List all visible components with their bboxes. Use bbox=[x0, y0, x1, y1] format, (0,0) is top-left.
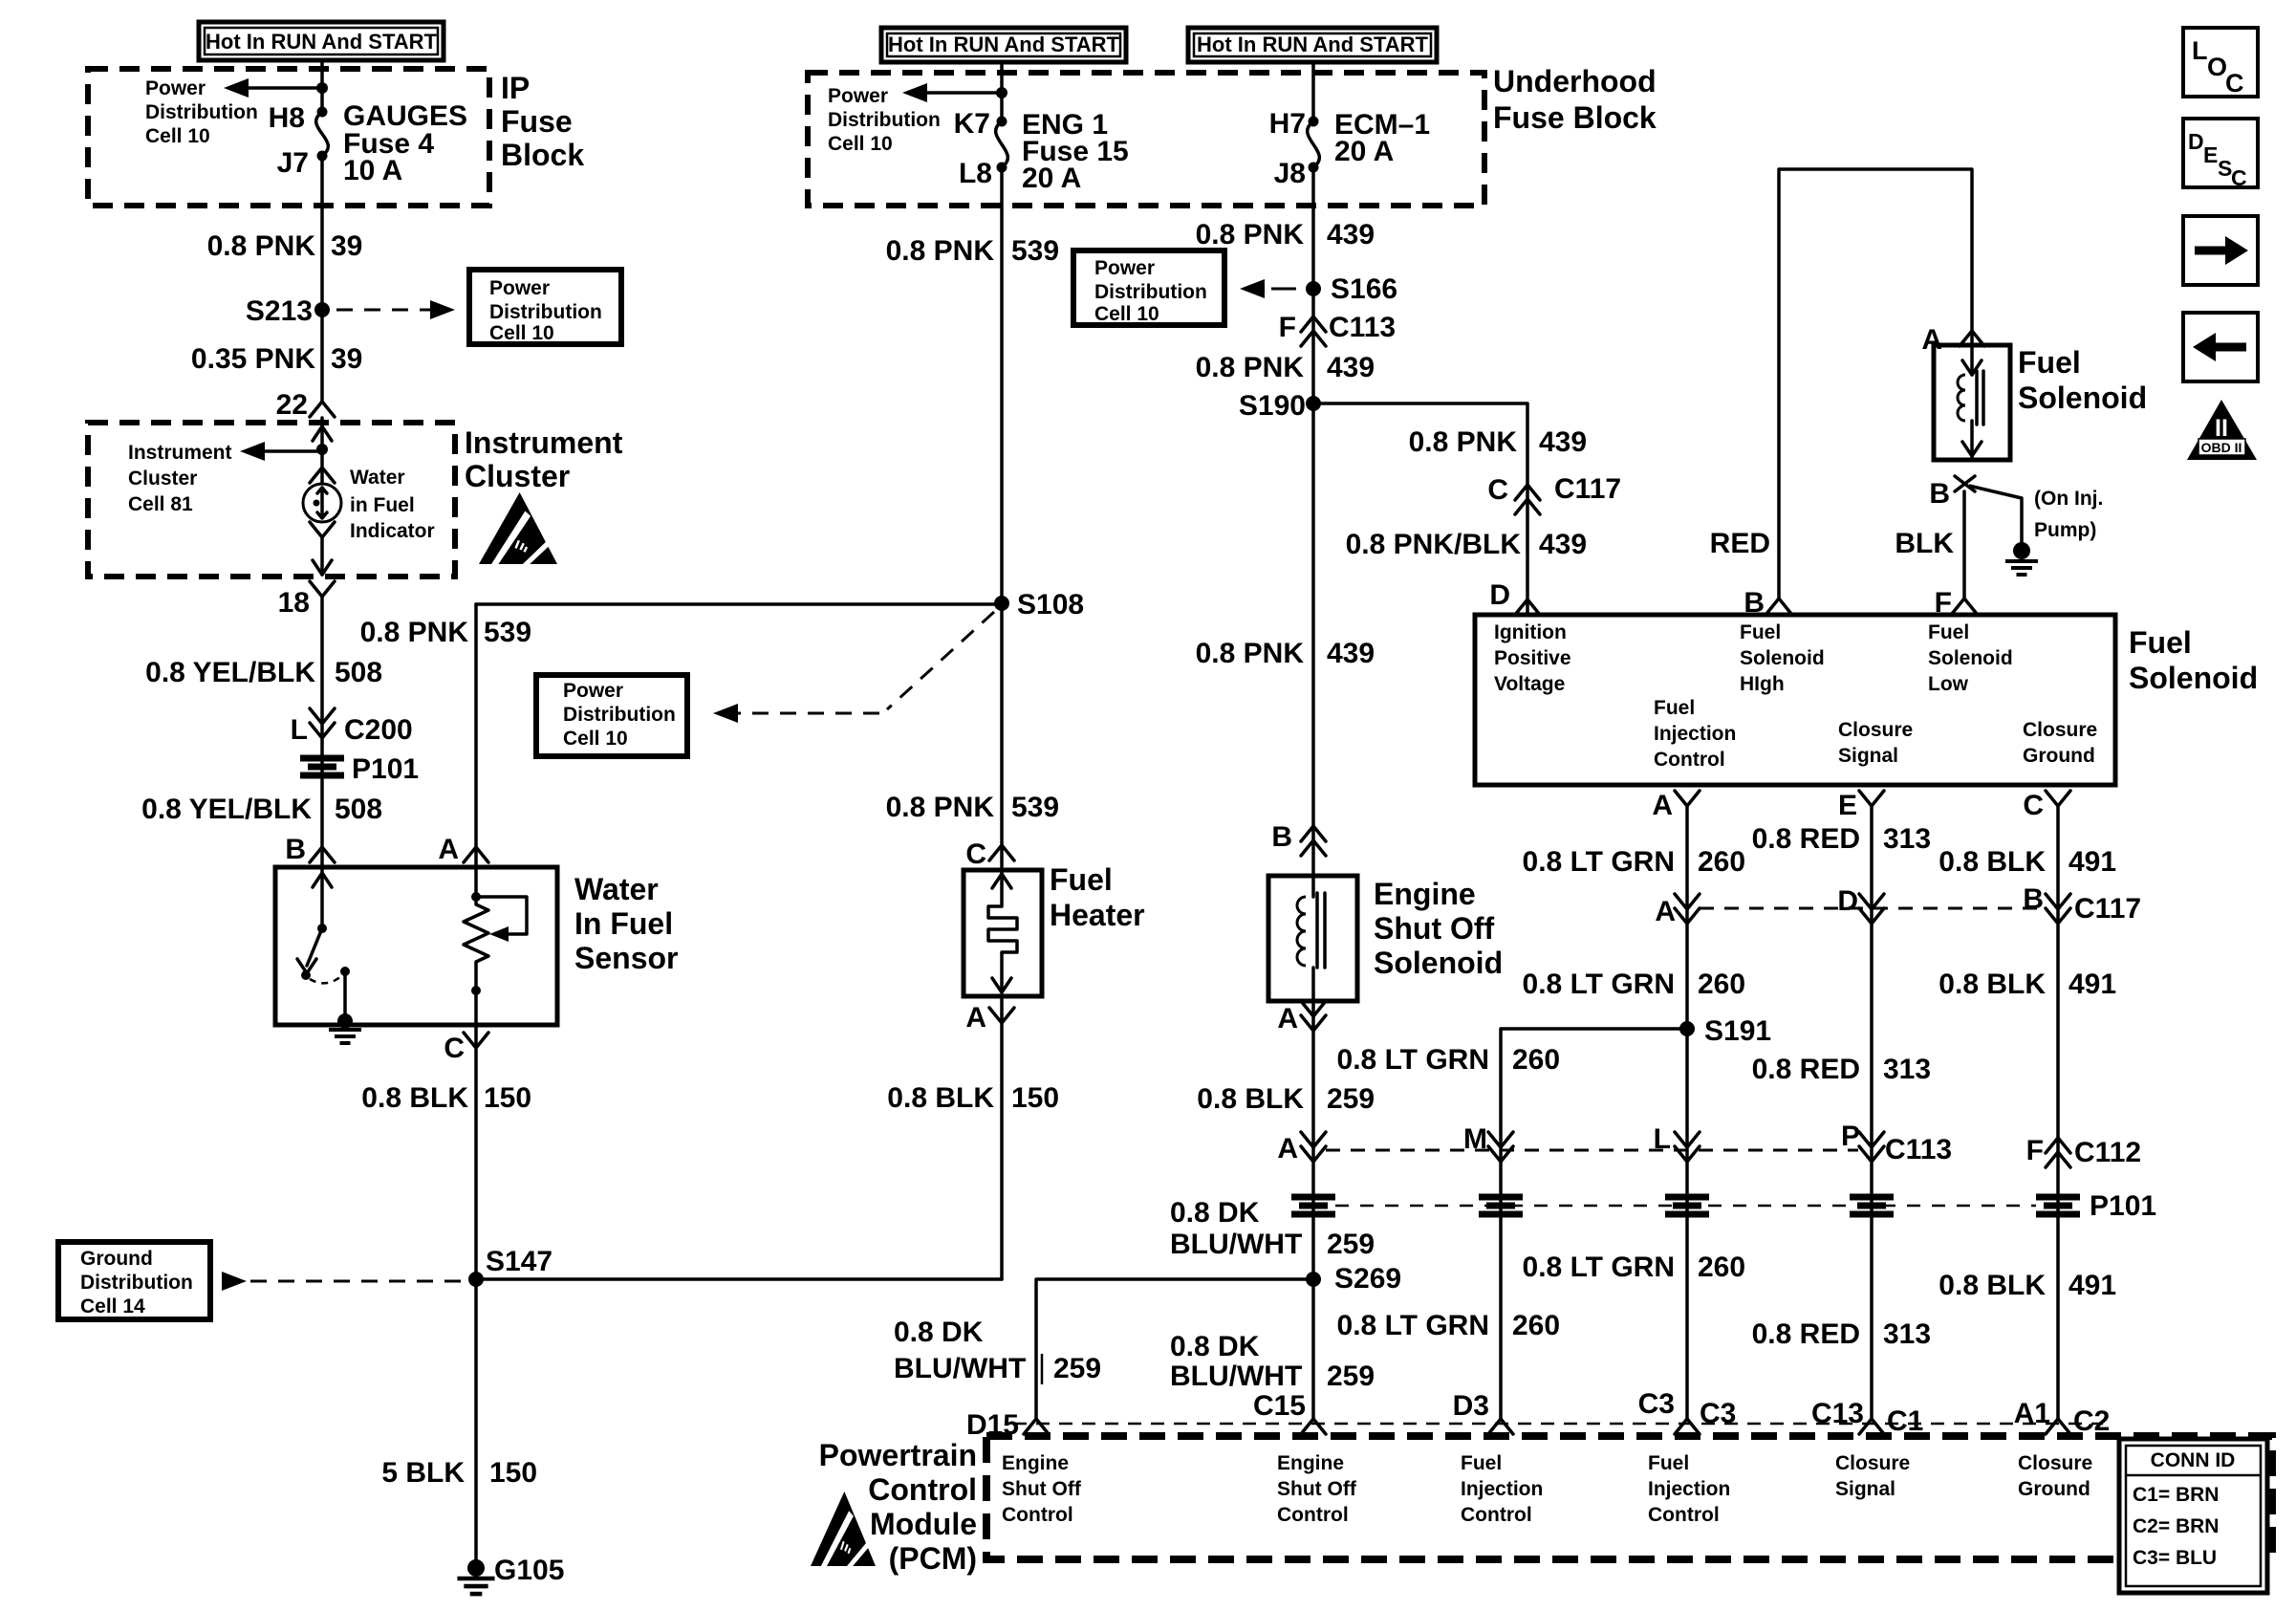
pass-through grommet P101 (column 1) bbox=[300, 755, 344, 762]
svg-text:S108: S108 bbox=[1017, 589, 1084, 620]
wire: solenoid A to S269 bbox=[1311, 1001, 1315, 1419]
svg-text:C1= BRN: C1= BRN bbox=[2133, 1484, 2219, 1506]
svg-text:Solenoid: Solenoid bbox=[2018, 381, 2147, 415]
pin "A" of engine shut off solenoid bbox=[1301, 1015, 1326, 1031]
sensor sender resistor (inside) bbox=[474, 867, 478, 897]
svg-text:Module: Module bbox=[870, 1507, 977, 1541]
svg-text:Distribution: Distribution bbox=[145, 101, 258, 123]
svg-text:Distribution: Distribution bbox=[828, 109, 941, 131]
svg-text:Signal: Signal bbox=[1838, 745, 1898, 767]
reference box "Power Distribution Cell 10" (middle) bbox=[536, 675, 687, 756]
svg-text:0.35 PNK: 0.35 PNK bbox=[191, 343, 315, 375]
svg-text:260: 260 bbox=[1698, 1252, 1745, 1283]
svg-text:313: 313 bbox=[1883, 1318, 1931, 1350]
svg-text:Positive: Positive bbox=[1494, 647, 1571, 669]
wire: indicator to cluster box edge with down arrow bbox=[320, 537, 324, 575]
svg-text:Water: Water bbox=[574, 872, 659, 906]
ESD symbol (instrument cluster) bbox=[479, 492, 557, 566]
svg-text:Hot In RUN And START: Hot In RUN And START bbox=[888, 33, 1120, 56]
svg-text:0.8 BLK: 0.8 BLK bbox=[1939, 846, 2046, 878]
chevron above water-in-fuel indicator bbox=[320, 449, 324, 484]
svg-text:J8: J8 bbox=[1274, 158, 1306, 189]
svg-text:Closure: Closure bbox=[1838, 719, 1913, 741]
svg-text:0.8 BLK: 0.8 BLK bbox=[1197, 1083, 1304, 1115]
svg-text:P: P bbox=[1841, 1121, 1860, 1152]
svg-text:508: 508 bbox=[335, 794, 382, 825]
svg-text:A: A bbox=[1277, 1003, 1298, 1034]
svg-text:Cell 10: Cell 10 bbox=[828, 133, 893, 155]
svg-text:Control: Control bbox=[1648, 1504, 1720, 1526]
svg-text:Engine: Engine bbox=[1374, 877, 1476, 911]
svg-text:0.8 PNK: 0.8 PNK bbox=[1196, 638, 1305, 669]
svg-text:Hot In RUN And START: Hot In RUN And START bbox=[206, 30, 438, 54]
CONN ID legend box bbox=[2119, 1439, 2267, 1593]
chevron below indicator bbox=[310, 522, 335, 537]
pin "22" connector chevron bbox=[310, 402, 335, 417]
pin "B" of engine shut off solenoid bbox=[1301, 826, 1326, 841]
ESD symbol (PCM) bbox=[811, 1491, 876, 1568]
svg-text:0.8 DK: 0.8 DK bbox=[1170, 1331, 1260, 1362]
svg-text:10 A: 10 A bbox=[343, 155, 402, 186]
svg-text:IP: IP bbox=[501, 71, 530, 105]
svg-text:E: E bbox=[2203, 142, 2218, 167]
wire: header to fuse H8 bbox=[320, 60, 324, 112]
svg-text:C: C bbox=[965, 838, 986, 870]
IP Fuse Block dashed box bbox=[88, 69, 489, 206]
svg-text:0.8 YEL/BLK: 0.8 YEL/BLK bbox=[145, 657, 315, 688]
svg-text:A: A bbox=[965, 1002, 986, 1034]
ground G105 bbox=[467, 1559, 485, 1577]
arrow to Instrument Cluster Cell 81 bbox=[262, 449, 322, 453]
svg-text:C3= BLU: C3= BLU bbox=[2133, 1547, 2217, 1569]
svg-text:20 A: 20 A bbox=[1022, 163, 1081, 194]
svg-text:Power: Power bbox=[563, 680, 623, 702]
svg-text:Distribution: Distribution bbox=[1094, 281, 1207, 303]
svg-text:Underhood: Underhood bbox=[1493, 64, 1657, 98]
PCM pin "D15" bbox=[1024, 1419, 1049, 1434]
svg-text:0.8 LT GRN: 0.8 LT GRN bbox=[1337, 1310, 1489, 1341]
svg-text:Signal: Signal bbox=[1835, 1478, 1895, 1500]
svg-text:0.8 PNK: 0.8 PNK bbox=[886, 235, 995, 267]
svg-text:C: C bbox=[2231, 165, 2247, 190]
svg-text:Cell 10: Cell 10 bbox=[489, 322, 554, 344]
svg-text:A: A bbox=[1655, 896, 1676, 927]
pin "A" of fuel heater bbox=[989, 1008, 1014, 1023]
splice S213 bbox=[314, 302, 330, 317]
svg-text:B: B bbox=[1929, 478, 1950, 510]
Underhood Fuse Block dashed box bbox=[808, 73, 1484, 206]
svg-text:C113: C113 bbox=[1885, 1134, 1952, 1165]
Engine Shut Off Solenoid box bbox=[1268, 876, 1357, 1001]
svg-text:Control: Control bbox=[1277, 1504, 1349, 1526]
Ground Distribution Cell 14 reference box bbox=[58, 1242, 210, 1319]
PCM pin "C3" bbox=[1675, 1419, 1700, 1434]
svg-text:150: 150 bbox=[489, 1457, 537, 1489]
P101 dashed connector line bbox=[1335, 1205, 2036, 1208]
svg-text:Solenoid: Solenoid bbox=[2129, 661, 2258, 695]
wire: S108 branch corner to sensor A bbox=[474, 604, 478, 867]
svg-text:Cell 10: Cell 10 bbox=[563, 728, 628, 750]
injector pump ground bbox=[2013, 542, 2030, 559]
pin "B" of water in fuel sensor bbox=[310, 847, 335, 862]
arrow S166 to ref box bbox=[1240, 279, 1265, 298]
svg-text:Power: Power bbox=[489, 277, 550, 299]
solenoid coil symbol bbox=[1297, 897, 1306, 966]
svg-text:20 A: 20 A bbox=[1334, 136, 1394, 167]
reference box "Power Distribution Cell 10" (right of S213) bbox=[469, 270, 621, 344]
fuse GAUGES Fuse 4 (H8/J7) bbox=[317, 107, 328, 118]
svg-text:II: II bbox=[2215, 415, 2228, 442]
header box "Hot In RUN And START" (IP) bbox=[199, 22, 444, 60]
svg-text:Hot In RUN And START: Hot In RUN And START bbox=[1197, 33, 1429, 56]
svg-text:B: B bbox=[2023, 883, 2044, 915]
svg-text:Distribution: Distribution bbox=[80, 1272, 193, 1294]
svg-text:BLU/WHT: BLU/WHT bbox=[1170, 1361, 1302, 1392]
wire: solenoid A to C3 (L column) bbox=[1685, 806, 1689, 1419]
pass-through grommet P101 (A column) bbox=[1291, 1194, 1335, 1201]
svg-text:260: 260 bbox=[1698, 969, 1745, 1000]
svg-text:0.8 RED: 0.8 RED bbox=[1752, 823, 1860, 855]
svg-text:HIgh: HIgh bbox=[1740, 673, 1785, 695]
splice S269 bbox=[1306, 1272, 1321, 1287]
svg-text:E: E bbox=[1838, 790, 1857, 821]
pass-through grommet P101 (F column) bbox=[2036, 1194, 2080, 1201]
fuse ECM-1 (H7/J8) bbox=[1311, 62, 1315, 121]
svg-text:539: 539 bbox=[1011, 235, 1059, 267]
connector C113 pin "F" bbox=[1301, 316, 1326, 332]
svg-text:M: M bbox=[1463, 1123, 1487, 1155]
svg-text:J7: J7 bbox=[277, 147, 309, 179]
splice S147 bbox=[468, 1272, 484, 1287]
connector C113 pin "L" bbox=[1675, 1146, 1700, 1162]
pin "D" of fuel solenoid box bbox=[1515, 599, 1540, 615]
svg-text:Cell 10: Cell 10 bbox=[1094, 303, 1159, 325]
svg-text:439: 439 bbox=[1539, 426, 1587, 458]
svg-text:259: 259 bbox=[1053, 1353, 1101, 1384]
svg-text:(On Inj.: (On Inj. bbox=[2034, 488, 2103, 510]
svg-text:0.8 PNK: 0.8 PNK bbox=[1409, 426, 1518, 458]
junction dot in IP fuse block bbox=[316, 82, 328, 94]
svg-text:D: D bbox=[1489, 579, 1510, 611]
wire: fuse J8 to engine shut off solenoid bbox=[1311, 167, 1315, 876]
arrow + dashed line to S147 bbox=[222, 1272, 247, 1291]
svg-text:BLU/WHT: BLU/WHT bbox=[894, 1353, 1026, 1384]
svg-text:F: F bbox=[1279, 312, 1296, 343]
svg-text:Injection: Injection bbox=[1461, 1478, 1543, 1500]
svg-text:Block: Block bbox=[501, 138, 584, 172]
pin "B" of fuel solenoid (component) with switch to inj pump ground bbox=[1955, 476, 1975, 491]
dashed pointer S108 to Power Distribution ref bbox=[887, 612, 994, 709]
pin "18" connector chevron bbox=[310, 581, 335, 597]
PCM pin "C15" bbox=[1301, 1419, 1326, 1434]
svg-text:Sensor: Sensor bbox=[574, 941, 678, 975]
svg-text:B: B bbox=[1271, 821, 1292, 853]
svg-text:D3: D3 bbox=[1453, 1390, 1489, 1422]
svg-text:150: 150 bbox=[484, 1082, 531, 1114]
svg-text:439: 439 bbox=[1539, 529, 1587, 560]
svg-text:S191: S191 bbox=[1704, 1015, 1771, 1047]
wire: fuel solenoid B loop (RED) bbox=[1779, 169, 1972, 599]
svg-text:313: 313 bbox=[1883, 823, 1931, 855]
PCM connector fine dashed line bbox=[1013, 1423, 2103, 1426]
svg-text:150: 150 bbox=[1011, 1082, 1059, 1114]
wire: fuse J7 to instrument cluster bbox=[320, 156, 324, 402]
svg-text:0.8 YEL/BLK: 0.8 YEL/BLK bbox=[141, 794, 312, 825]
svg-text:RED: RED bbox=[1710, 528, 1770, 559]
svg-text:491: 491 bbox=[2069, 969, 2116, 1000]
wire: solenoid E to PCM C1 (P column) bbox=[1870, 806, 1874, 1419]
svg-text:439: 439 bbox=[1327, 219, 1375, 250]
sensor switch (inside) bbox=[320, 867, 324, 926]
svg-text:CONN ID: CONN ID bbox=[2151, 1449, 2236, 1471]
svg-text:18: 18 bbox=[278, 587, 310, 619]
svg-text:Fuse: Fuse bbox=[501, 104, 573, 139]
svg-text:H7: H7 bbox=[1269, 108, 1306, 140]
connector C113 pin "P" bbox=[1859, 1146, 1884, 1162]
wire: fuse L8 to fuel heater bbox=[1000, 167, 1004, 870]
reference box "Power Distribution Cell 10" (col3) bbox=[1073, 250, 1224, 325]
svg-text:S269: S269 bbox=[1334, 1263, 1401, 1295]
svg-text:0.8 PNK/BLK: 0.8 PNK/BLK bbox=[1346, 529, 1522, 560]
svg-text:Fuel: Fuel bbox=[2018, 345, 2081, 380]
svg-text:C: C bbox=[2225, 69, 2244, 98]
PCM pin "D3" bbox=[1488, 1419, 1513, 1434]
next-page arrow box bbox=[2183, 216, 2258, 285]
arrow to Power Distribution Cell 10 (IP) bbox=[249, 86, 322, 90]
Powertrain Control Module (PCM) dashed box bbox=[986, 1436, 2272, 1559]
wire: heater A to S147 corner bbox=[1000, 996, 1004, 1279]
svg-text:491: 491 bbox=[2069, 1270, 2116, 1301]
connector C117 pin "A" (lower) bbox=[1675, 908, 1700, 924]
svg-text:260: 260 bbox=[1698, 846, 1745, 878]
svg-text:Solenoid: Solenoid bbox=[1374, 946, 1503, 980]
svg-text:0.8 LT GRN: 0.8 LT GRN bbox=[1523, 1252, 1675, 1283]
junction dot (instrument cluster) bbox=[316, 444, 328, 455]
pin "F" of fuel solenoid box bbox=[1952, 599, 1977, 614]
Fuel Heater box bbox=[964, 870, 1042, 996]
svg-text:Fuse Block: Fuse Block bbox=[1493, 100, 1657, 135]
connector C113 pin "A" (lower) bbox=[1301, 1146, 1326, 1162]
svg-text:Fuel: Fuel bbox=[1050, 862, 1113, 897]
svg-text:Injection: Injection bbox=[1648, 1478, 1730, 1500]
wire: S108 to sensor branch (horizontal) bbox=[476, 602, 1002, 606]
svg-text:A: A bbox=[438, 834, 459, 865]
svg-text:22: 22 bbox=[276, 389, 308, 421]
svg-text:259: 259 bbox=[1327, 1361, 1375, 1392]
svg-text:C117: C117 bbox=[2074, 893, 2141, 925]
svg-text:C: C bbox=[2023, 790, 2044, 821]
svg-text:Fuel: Fuel bbox=[2129, 625, 2192, 660]
svg-text:Fuel: Fuel bbox=[1654, 697, 1695, 719]
svg-text:539: 539 bbox=[1011, 792, 1059, 823]
svg-text:Power: Power bbox=[828, 85, 888, 107]
svg-text:Instrument: Instrument bbox=[465, 425, 623, 460]
svg-text:0.8 PNK: 0.8 PNK bbox=[207, 230, 316, 262]
svg-text:S190: S190 bbox=[1239, 390, 1306, 422]
PCM pin "A1/C2" bbox=[2046, 1419, 2070, 1434]
dashed arrow S213 to Power Distribution ref bbox=[336, 309, 432, 312]
branch wire S191 to M column bbox=[1501, 1029, 1687, 1419]
svg-text:0.8 BLK: 0.8 BLK bbox=[361, 1082, 468, 1114]
pass-through grommet P101 (M column) bbox=[1479, 1194, 1523, 1201]
svg-text:5 BLK: 5 BLK bbox=[381, 1457, 465, 1489]
svg-text:H8: H8 bbox=[269, 102, 305, 134]
svg-text:Control: Control bbox=[1654, 749, 1725, 771]
pin "B" of fuel solenoid box bbox=[1766, 599, 1791, 614]
arrow to Power Distribution Cell 10 (underhood) bbox=[927, 91, 1002, 95]
svg-text:Injection: Injection bbox=[1654, 723, 1736, 745]
svg-text:Low: Low bbox=[1928, 673, 1969, 695]
svg-text:B: B bbox=[285, 834, 306, 865]
DESC legend box bbox=[2183, 119, 2258, 187]
svg-text:491: 491 bbox=[2069, 846, 2116, 878]
svg-text:A: A bbox=[1652, 790, 1673, 821]
svg-text:Water: Water bbox=[350, 467, 405, 489]
connector C113 pin "M" bbox=[1488, 1146, 1513, 1162]
svg-text:260: 260 bbox=[1512, 1310, 1560, 1341]
svg-text:Solenoid: Solenoid bbox=[1928, 647, 2013, 669]
svg-text:C113: C113 bbox=[1329, 312, 1396, 343]
water in fuel indicator lamp circle bbox=[303, 484, 341, 522]
svg-text:Closure: Closure bbox=[2018, 1452, 2092, 1474]
svg-text:A: A bbox=[1277, 1133, 1298, 1165]
svg-text:313: 313 bbox=[1883, 1054, 1931, 1085]
branch wire S190 to C117/D bbox=[1313, 403, 1527, 615]
svg-text:0.8 PNK: 0.8 PNK bbox=[360, 617, 469, 648]
svg-text:0.8 LT GRN: 0.8 LT GRN bbox=[1523, 846, 1675, 878]
svg-text:Powertrain: Powertrain bbox=[819, 1438, 977, 1472]
connector C112 pin "F" bbox=[2046, 1138, 2070, 1153]
svg-text:G105: G105 bbox=[494, 1555, 564, 1586]
junction dot in underhood block bbox=[996, 87, 1007, 98]
svg-text:Ground: Ground bbox=[2023, 745, 2095, 767]
svg-text:Instrument: Instrument bbox=[128, 442, 232, 464]
connector C117 pin "D" bbox=[1859, 908, 1884, 924]
pin "A" of water in fuel sensor bbox=[464, 847, 488, 862]
svg-text:D: D bbox=[1837, 885, 1858, 917]
svg-text:C200: C200 bbox=[344, 714, 413, 746]
svg-text:Power: Power bbox=[1094, 257, 1155, 279]
wire: sensor C to S147 bbox=[474, 1025, 478, 1279]
wire: 18 to water in fuel sensor B bbox=[320, 597, 324, 867]
splice S190 bbox=[1306, 396, 1321, 411]
svg-text:Cell 14: Cell 14 bbox=[80, 1295, 145, 1317]
svg-text:Control: Control bbox=[1461, 1504, 1532, 1526]
svg-text:Solenoid: Solenoid bbox=[1740, 647, 1825, 669]
pin "C" of fuel heater bbox=[989, 845, 1014, 860]
svg-text:In Fuel: In Fuel bbox=[574, 906, 673, 941]
svg-text:L: L bbox=[291, 714, 308, 746]
svg-text:BLK: BLK bbox=[1895, 528, 1954, 559]
splice S166 bbox=[1306, 281, 1321, 296]
svg-text:Fuel: Fuel bbox=[1648, 1452, 1689, 1474]
wire into instrument cluster with up arrow bbox=[320, 418, 324, 449]
svg-text:C15: C15 bbox=[1253, 1390, 1306, 1422]
svg-text:439: 439 bbox=[1327, 638, 1375, 669]
svg-text:P101: P101 bbox=[2090, 1190, 2156, 1222]
pin "A" of fuel solenoid (component) bbox=[1960, 331, 1984, 346]
svg-text:Cluster: Cluster bbox=[128, 468, 197, 490]
svg-text:39: 39 bbox=[331, 230, 362, 262]
svg-text:508: 508 bbox=[335, 657, 382, 688]
sensor internal ground bbox=[337, 1013, 353, 1029]
svg-text:Ignition: Ignition bbox=[1494, 621, 1567, 643]
svg-text:C2= BRN: C2= BRN bbox=[2133, 1515, 2219, 1537]
svg-text:Cluster: Cluster bbox=[465, 459, 570, 493]
svg-text:L8: L8 bbox=[959, 158, 992, 189]
splice S191 bbox=[1679, 1021, 1695, 1036]
svg-text:K7: K7 bbox=[954, 108, 990, 140]
branch S269 to PCM D15 bbox=[1036, 1279, 1313, 1419]
svg-text:Ground: Ground bbox=[80, 1248, 153, 1270]
wire: S147 to G105 bbox=[474, 1279, 478, 1560]
svg-text:Closure: Closure bbox=[2023, 719, 2097, 741]
LOC legend box bbox=[2183, 28, 2258, 97]
wire: B to F pin bbox=[1962, 491, 1966, 599]
svg-text:F: F bbox=[2026, 1135, 2044, 1166]
svg-text:259: 259 bbox=[1327, 1083, 1375, 1115]
svg-text:C112: C112 bbox=[2074, 1137, 2141, 1168]
svg-text:C: C bbox=[444, 1033, 465, 1064]
svg-text:Shut Off: Shut Off bbox=[1374, 911, 1495, 946]
svg-text:(PCM): (PCM) bbox=[889, 1541, 977, 1576]
svg-text:S166: S166 bbox=[1331, 273, 1397, 305]
Fuel Solenoid box (pump mounted) bbox=[1475, 615, 2115, 785]
svg-text:0.8 PNK: 0.8 PNK bbox=[886, 792, 995, 823]
svg-text:39: 39 bbox=[331, 343, 362, 375]
svg-text:O: O bbox=[2207, 53, 2227, 81]
fuel solenoid coil symbol bbox=[1970, 345, 1974, 375]
svg-text:L: L bbox=[2192, 36, 2208, 65]
svg-text:Ground: Ground bbox=[2018, 1478, 2090, 1500]
C117 dashed connector line bbox=[1700, 907, 2046, 910]
svg-text:0.8 BLK: 0.8 BLK bbox=[887, 1082, 994, 1114]
svg-text:Control: Control bbox=[1002, 1504, 1073, 1526]
svg-text:Engine: Engine bbox=[1277, 1452, 1344, 1474]
Fuel Solenoid component box bbox=[1934, 345, 2010, 460]
svg-text:S147: S147 bbox=[486, 1246, 552, 1277]
svg-text:0.8 PNK: 0.8 PNK bbox=[1196, 219, 1305, 250]
wire: solenoid C to PCM C2 (F column) bbox=[2056, 806, 2060, 1419]
pass-through grommet P101 (P column) bbox=[1850, 1194, 1894, 1201]
connector C117 pin "B" bbox=[2046, 908, 2070, 924]
svg-text:0.8 DK: 0.8 DK bbox=[894, 1317, 984, 1348]
svg-text:Distribution: Distribution bbox=[563, 704, 676, 726]
fuse ENG 1 Fuse 15 (K7/L8) bbox=[997, 117, 1007, 127]
svg-text:Control: Control bbox=[868, 1472, 977, 1507]
svg-text:Heater: Heater bbox=[1050, 898, 1145, 932]
svg-text:Distribution: Distribution bbox=[489, 301, 602, 323]
svg-text:Power: Power bbox=[145, 77, 206, 99]
svg-text:0.8 BLK: 0.8 BLK bbox=[1939, 1270, 2046, 1301]
svg-text:260: 260 bbox=[1512, 1044, 1560, 1076]
svg-text:Fuel: Fuel bbox=[1740, 621, 1781, 643]
svg-text:0.8 BLK: 0.8 BLK bbox=[1939, 969, 2046, 1000]
svg-text:439: 439 bbox=[1327, 352, 1375, 383]
pin "C" of fuel solenoid box (bottom) bbox=[2046, 791, 2070, 806]
svg-text:P101: P101 bbox=[352, 753, 419, 785]
splice S108 bbox=[994, 596, 1009, 611]
pin "E" of fuel solenoid box (bottom) bbox=[1859, 791, 1884, 806]
previous-page arrow box bbox=[2183, 313, 2258, 381]
svg-text:Indicator: Indicator bbox=[350, 520, 435, 542]
svg-text:0.8 RED: 0.8 RED bbox=[1752, 1054, 1860, 1085]
svg-text:OBD II: OBD II bbox=[2201, 440, 2242, 455]
header box "Hot In RUN And START" (ECM-1) bbox=[1188, 28, 1437, 62]
heater element symbol bbox=[1000, 870, 1004, 906]
svg-text:Cell 81: Cell 81 bbox=[128, 493, 193, 515]
C113 dashed connector line bbox=[1326, 1149, 1858, 1152]
